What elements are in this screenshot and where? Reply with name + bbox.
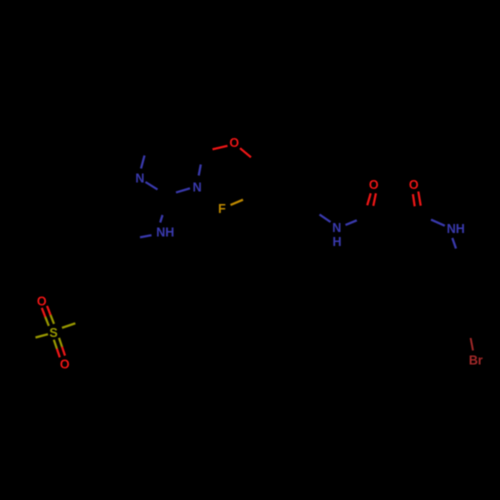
svg-text:S: S (49, 326, 57, 340)
svg-text:NH: NH (156, 225, 174, 239)
svg-text:O: O (37, 295, 47, 309)
svg-text:NH: NH (447, 222, 465, 236)
bond C2'-F (half near F) (231, 200, 244, 205)
bond C4'-N(amide1) half near N (320, 215, 331, 223)
svg-text:O: O (60, 358, 70, 372)
bond N(amine)-CH3 half near N (140, 235, 152, 237)
bond S-CH2 half near S (right) (62, 323, 75, 328)
bromine bond C4'''-Br (half near Br) (471, 338, 473, 351)
bond N(amide1)-C(=O) half near N (346, 220, 357, 225)
double bond C=O1 line a (half near O) (367, 193, 371, 205)
double bond C=O1 line b (half near O) (373, 193, 376, 206)
S=O top double bond line b red half (47, 306, 51, 315)
bond N3-C4 (half near N3) (199, 165, 201, 176)
bond C4-O (half near O, left side) (213, 146, 228, 150)
S=O bottom double bond line b red half (62, 347, 65, 356)
svg-text:N: N (135, 171, 144, 185)
S=O bottom double bond line a red half (57, 349, 60, 358)
bond O-C1' (half near O, right side) (240, 148, 251, 157)
svg-text:H: H (332, 235, 341, 249)
S=O top double bond line a sulfur half (45, 317, 48, 326)
bond N(amide2)-C1''' half near N (452, 238, 456, 249)
S=O top double bond line a red half (42, 308, 46, 317)
bond C2-N(amine) half near amine N (160, 215, 162, 223)
svg-text:O: O (409, 178, 419, 192)
S=O bottom double bond line a sulfur half (54, 340, 57, 349)
double bond C=O2 line a (half near O) (413, 194, 415, 206)
svg-text:O: O (369, 178, 379, 192)
svg-text:N: N (332, 221, 341, 235)
bond C2-N3 (half near N3) (176, 188, 190, 192)
svg-text:Br: Br (469, 354, 483, 368)
svg-text:N: N (193, 181, 202, 195)
bond N1-C6 (half near N1) (141, 156, 145, 169)
S=O top double bond line b sulfur half (51, 315, 54, 324)
svg-text:F: F (218, 202, 226, 216)
bond N1-C2 (half near N1) (146, 182, 158, 190)
svg-text:O: O (229, 136, 239, 150)
bond C(=O2)-N(amide2) half near N (431, 220, 445, 226)
double bond C=O2 line b (half near O) (418, 192, 420, 206)
S=O bottom double bond line b sulfur half (59, 338, 62, 347)
bond S-CH3 half near S (left) (36, 334, 49, 337)
